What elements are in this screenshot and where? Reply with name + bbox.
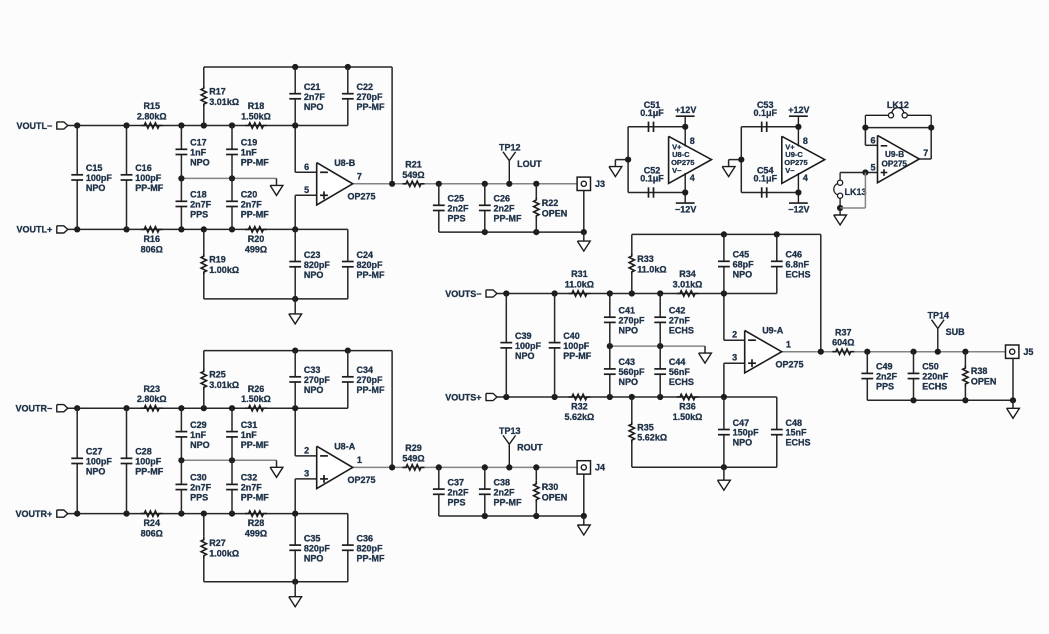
svg-text:220nF: 220nF (922, 372, 949, 382)
svg-text:100pF: 100pF (86, 173, 113, 183)
ground S mid (699, 346, 712, 363)
resistor R25 (201, 351, 239, 409)
ground R mid (270, 460, 283, 477)
svg-text:3.01kΩ: 3.01kΩ (673, 280, 703, 290)
svg-text:PP-MF: PP-MF (241, 440, 270, 450)
svg-text:2.80kΩ: 2.80kΩ (137, 112, 167, 122)
svg-text:1nF: 1nF (241, 148, 258, 158)
svg-text:2n2F: 2n2F (448, 487, 470, 497)
svg-text:5: 5 (870, 163, 875, 173)
svg-text:820pF: 820pF (304, 260, 331, 270)
capacitor C53 (753, 100, 777, 132)
svg-text:1: 1 (357, 455, 362, 465)
resistor R36 (673, 394, 703, 422)
svg-text:VOUTR+: VOUTR+ (16, 509, 53, 519)
svg-text:C26: C26 (494, 194, 511, 204)
svg-text:R21: R21 (405, 160, 422, 170)
svg-text:R38: R38 (971, 366, 988, 376)
wire S mid ground net (610, 345, 705, 347)
wire S output row (782, 351, 1006, 353)
svg-text:0.1μF: 0.1μF (640, 108, 664, 118)
capacitor C19 (226, 126, 269, 179)
svg-text:100pF: 100pF (515, 341, 542, 351)
svg-text:C45: C45 (733, 250, 750, 260)
svg-text:OPEN: OPEN (542, 209, 568, 219)
svg-text:C20: C20 (241, 190, 258, 200)
resistor R17 (201, 67, 239, 126)
svg-text:R24: R24 (143, 518, 160, 528)
svg-text:R25: R25 (209, 370, 226, 380)
svg-text:C47: C47 (733, 418, 750, 428)
svg-text:PP-MF: PP-MF (563, 351, 592, 361)
wire U8-C bottom net (628, 192, 685, 194)
svg-text:ECHS: ECHS (922, 382, 947, 392)
connector J5 (1006, 345, 1034, 358)
svg-text:PPS: PPS (190, 210, 208, 220)
svg-text:PP-MF: PP-MF (357, 102, 386, 112)
svg-text:R30: R30 (542, 482, 559, 492)
svg-text:C24: C24 (357, 250, 374, 260)
capacitor C33 (289, 351, 330, 409)
svg-text:R31: R31 (571, 269, 588, 279)
svg-text:270pF: 270pF (357, 92, 384, 102)
capacitor C20 (226, 178, 269, 229)
op-amp U8-A (304, 441, 375, 488)
svg-text:ECHS: ECHS (786, 270, 811, 280)
resistor R38 (963, 352, 997, 401)
ground U8-C (609, 160, 622, 177)
svg-text:NPO: NPO (619, 325, 639, 335)
resistor R24 (141, 511, 163, 539)
wire U9-B top net (865, 127, 931, 129)
svg-text:VOUTL+: VOUTL+ (17, 225, 53, 235)
svg-text:J4: J4 (595, 463, 605, 473)
svg-text:1.00kΩ: 1.00kΩ (209, 265, 239, 275)
svg-text:PP-MF: PP-MF (241, 158, 270, 168)
svg-text:820pF: 820pF (357, 543, 384, 553)
power +12V U8-C (675, 105, 696, 127)
svg-text:R18: R18 (248, 101, 265, 111)
svg-text:VOUTL−: VOUTL− (17, 121, 53, 131)
svg-text:C38: C38 (494, 477, 511, 487)
link LK12 (865, 100, 931, 128)
svg-text:8: 8 (690, 136, 695, 146)
connector VOUTR+ (16, 509, 68, 519)
resistor R22 (534, 184, 568, 232)
capacitor C49 (861, 352, 897, 401)
junctions L (74, 64, 587, 302)
svg-text:2n2F: 2n2F (876, 372, 898, 382)
svg-text:C44: C44 (669, 357, 686, 367)
svg-text:0.1μF: 0.1μF (753, 174, 777, 184)
svg-text:C23: C23 (304, 250, 321, 260)
svg-text:R20: R20 (248, 234, 265, 244)
svg-text:100pF: 100pF (135, 173, 162, 183)
capacitor C42 (654, 294, 694, 347)
svg-text:R26: R26 (248, 384, 265, 394)
svg-text:C25: C25 (448, 194, 465, 204)
op-amp U8-B (304, 158, 375, 205)
svg-text:1.50kΩ: 1.50kΩ (673, 412, 703, 422)
ground S bottom (718, 467, 731, 490)
capacitor C31 (226, 408, 269, 460)
svg-text:3.01kΩ: 3.01kΩ (209, 380, 239, 390)
svg-text:3: 3 (304, 468, 309, 478)
ground U9-B (834, 208, 847, 225)
resistor R21 (402, 160, 424, 187)
svg-text:C19: C19 (241, 138, 258, 148)
svg-text:U9-B: U9-B (885, 150, 904, 159)
svg-text:R32: R32 (571, 402, 588, 412)
svg-text:549Ω: 549Ω (402, 453, 424, 463)
svg-text:NPO: NPO (304, 553, 324, 563)
svg-text:C49: C49 (876, 362, 893, 372)
wire R bottom net (204, 581, 348, 583)
svg-text:68pF: 68pF (733, 260, 755, 270)
wire U8-C top net (628, 126, 685, 128)
connector VOUTS− (445, 289, 497, 299)
svg-text:LK12: LK12 (887, 100, 909, 110)
junctions R (74, 348, 587, 585)
svg-text:2n2F: 2n2F (448, 204, 470, 214)
power −12V U9-C (788, 193, 809, 215)
svg-text:PP-MF: PP-MF (357, 385, 386, 395)
svg-text:PP-MF: PP-MF (357, 270, 386, 280)
capacitor C36 (342, 514, 385, 582)
svg-text:11.0kΩ: 11.0kΩ (637, 265, 666, 275)
svg-text:PP-MF: PP-MF (494, 497, 523, 507)
capacitor C45 (718, 234, 754, 293)
capacitor C27 (71, 408, 112, 513)
svg-text:VOUTR−: VOUTR− (16, 404, 53, 414)
resistor R33 (629, 234, 666, 293)
svg-text:R16: R16 (143, 234, 160, 244)
wire S plus-input row (497, 396, 777, 398)
wire S output bottom net (867, 358, 1013, 400)
op-amp U9-A (732, 326, 803, 373)
svg-text:R23: R23 (143, 384, 160, 394)
svg-text:U8-B: U8-B (334, 158, 356, 168)
svg-text:V−: V− (785, 166, 795, 175)
svg-text:C50: C50 (922, 362, 939, 372)
capacitor C39 (500, 294, 541, 398)
resistor R32 (565, 394, 595, 422)
wire R top feedback net (204, 351, 392, 468)
svg-text:OP275: OP275 (882, 160, 908, 169)
svg-text:R35: R35 (637, 422, 654, 432)
capacitor C21 (289, 67, 325, 126)
svg-text:ROUT: ROUT (517, 443, 543, 453)
svg-text:499Ω: 499Ω (245, 244, 267, 254)
svg-text:5.62kΩ: 5.62kΩ (637, 433, 667, 443)
wire U9-B pin 6 stub (865, 128, 877, 146)
wire L minus-input row (68, 125, 348, 127)
svg-text:R19: R19 (209, 254, 226, 264)
capacitor C32 (226, 460, 269, 513)
capacitor C22 (342, 67, 385, 126)
capacitor C23 (289, 229, 330, 299)
svg-text:U8-A: U8-A (334, 441, 356, 451)
capacitor C41 (604, 294, 645, 347)
svg-text:LOUT: LOUT (517, 159, 542, 169)
svg-text:C21: C21 (304, 82, 321, 92)
ground L mid (270, 178, 283, 195)
wire L bottom net (204, 298, 348, 300)
svg-text:−12V: −12V (788, 205, 809, 215)
svg-text:NPO: NPO (304, 385, 324, 395)
ground under J3 (577, 232, 590, 251)
svg-text:C30: C30 (190, 473, 207, 483)
svg-text:SUB: SUB (946, 327, 966, 337)
svg-text:499Ω: 499Ω (245, 529, 267, 539)
svg-text:LK13: LK13 (845, 187, 867, 197)
svg-text:C35: C35 (304, 533, 321, 543)
svg-text:V−: V− (672, 166, 682, 175)
svg-text:2n2F: 2n2F (494, 487, 516, 497)
svg-text:NPO: NPO (86, 183, 106, 193)
svg-text:1nF: 1nF (241, 430, 258, 440)
svg-text:C33: C33 (304, 365, 321, 375)
svg-text:C41: C41 (619, 306, 636, 316)
svg-text:R27: R27 (209, 538, 226, 548)
svg-text:VOUTS+: VOUTS+ (445, 392, 481, 402)
svg-text:100pF: 100pF (563, 341, 590, 351)
capacitor C34 (342, 351, 385, 409)
resistor R28 (245, 511, 267, 539)
svg-text:56nF: 56nF (669, 367, 691, 377)
capacitor C29 (176, 408, 210, 460)
capacitor C51 (640, 100, 664, 132)
svg-text:820pF: 820pF (304, 543, 331, 553)
svg-text:C32: C32 (241, 473, 258, 483)
wire S bottom net (632, 466, 777, 468)
svg-text:C43: C43 (619, 357, 636, 367)
resistor R19 (201, 229, 239, 299)
resistor R20 (245, 227, 267, 255)
resistor R15 (137, 101, 167, 128)
svg-text:NPO: NPO (190, 158, 210, 168)
capacitor C44 (654, 346, 694, 397)
resistor R16 (141, 227, 163, 255)
svg-text:−12V: −12V (675, 205, 696, 215)
svg-text:1: 1 (786, 339, 791, 349)
svg-text:R29: R29 (405, 443, 422, 453)
svg-text:2: 2 (304, 445, 309, 455)
svg-text:150pF: 150pF (733, 428, 760, 438)
svg-text:PP-MF: PP-MF (241, 210, 270, 220)
connector VOUTL+ (17, 225, 68, 235)
svg-text:J3: J3 (595, 179, 605, 189)
wire U9-C pin 4 (798, 173, 808, 193)
wire R non-inverting stub (295, 479, 317, 514)
connector J4 (577, 461, 605, 474)
wire U9-C left column (729, 127, 742, 193)
svg-text:PP-MF: PP-MF (241, 493, 270, 503)
capacitor C15 (71, 126, 112, 230)
svg-text:NPO: NPO (86, 467, 106, 477)
op-amp U9-B (870, 135, 928, 182)
svg-text:OP275: OP275 (776, 360, 804, 370)
svg-text:R36: R36 (679, 402, 696, 412)
svg-text:NPO: NPO (190, 440, 210, 450)
svg-text:2: 2 (732, 330, 737, 340)
capacitor C40 (549, 294, 592, 398)
svg-text:6.8nF: 6.8nF (786, 260, 810, 270)
svg-text:7: 7 (357, 172, 362, 182)
svg-text:OPEN: OPEN (971, 377, 997, 387)
capacitor C43 (604, 346, 645, 397)
svg-text:ECHS: ECHS (669, 377, 694, 387)
wire U8-C pin 4 (685, 173, 695, 193)
wire S non-inverting stub (724, 363, 745, 397)
wire R mid ground net (181, 459, 276, 461)
svg-text:2n7F: 2n7F (190, 483, 212, 493)
svg-text:C22: C22 (357, 82, 374, 92)
svg-text:ECHS: ECHS (786, 438, 811, 448)
svg-text:C42: C42 (669, 306, 686, 316)
capacitor C18 (176, 178, 212, 229)
power +12V U9-C (788, 105, 809, 127)
svg-text:NPO: NPO (733, 270, 753, 280)
svg-text:PP-MF: PP-MF (135, 467, 164, 477)
capacitor C46 (771, 234, 811, 293)
wire L output row (353, 183, 577, 185)
resistor R29 (402, 443, 424, 470)
svg-text:OPEN: OPEN (542, 492, 568, 502)
capacitor C26 (479, 184, 522, 232)
svg-text:3.01kΩ: 3.01kΩ (209, 97, 239, 107)
capacitor C17 (176, 126, 210, 179)
svg-text:C39: C39 (515, 331, 532, 341)
svg-text:C40: C40 (563, 331, 580, 341)
svg-text:2n7F: 2n7F (304, 92, 326, 102)
svg-text:C17: C17 (190, 138, 207, 148)
svg-text:C37: C37 (448, 477, 465, 487)
link LK13 (834, 173, 867, 209)
svg-text:TP13: TP13 (499, 426, 521, 436)
svg-text:15nF: 15nF (786, 428, 808, 438)
svg-text:270pF: 270pF (357, 375, 384, 385)
capacitor C37 (433, 467, 469, 516)
svg-text:4: 4 (803, 173, 808, 183)
wire U9-C bottom net (741, 192, 798, 194)
resistor R34 (673, 269, 703, 296)
svg-text:NPO: NPO (733, 438, 753, 448)
svg-text:PP-MF: PP-MF (357, 553, 386, 563)
svg-text:R22: R22 (542, 198, 559, 208)
wire U9-C top net (741, 126, 798, 128)
wire U8-C pin 8 (685, 127, 695, 147)
svg-text:C36: C36 (357, 533, 374, 543)
capacitor C16 (121, 126, 164, 230)
svg-text:8: 8 (803, 136, 808, 146)
junctions U9-B (837, 125, 934, 212)
svg-text:1nF: 1nF (190, 430, 207, 440)
capacitor C48 (771, 397, 811, 467)
svg-text:J5: J5 (1023, 347, 1033, 357)
ground L bottom (289, 299, 302, 324)
resistor R30 (534, 467, 568, 516)
svg-text:C29: C29 (190, 420, 207, 430)
capacitor C47 (718, 397, 759, 467)
svg-text:NPO: NPO (619, 377, 639, 387)
wire R minus-input row (68, 407, 348, 409)
svg-text:R28: R28 (248, 518, 265, 528)
wire L mid ground net (181, 177, 276, 179)
svg-text:C16: C16 (135, 163, 152, 173)
svg-text:TP14: TP14 (928, 311, 950, 321)
wire R inverting stub (295, 408, 317, 456)
svg-text:PPS: PPS (448, 214, 466, 224)
svg-text:1.50kΩ: 1.50kΩ (241, 394, 271, 404)
wire L plus-input row (68, 228, 348, 230)
svg-text:6: 6 (870, 135, 875, 145)
svg-text:1.50kΩ: 1.50kΩ (241, 112, 271, 122)
svg-text:C15: C15 (86, 163, 103, 173)
svg-text:C27: C27 (86, 447, 103, 457)
junctions U9-C (738, 124, 801, 196)
wire S minus-input row (497, 293, 777, 295)
svg-text:C28: C28 (135, 447, 152, 457)
junctions S (503, 231, 1016, 470)
wire S inverting stub (724, 294, 745, 341)
svg-text:806Ω: 806Ω (141, 244, 163, 254)
svg-text:NPO: NPO (515, 351, 535, 361)
capacitor C38 (479, 467, 522, 516)
resistor R27 (201, 514, 239, 582)
svg-text:PPS: PPS (876, 382, 894, 392)
wire U9-B pin 7 stub (919, 128, 931, 159)
svg-text:PP-MF: PP-MF (494, 214, 523, 224)
svg-text:0.1μF: 0.1μF (640, 174, 664, 184)
connector VOUTS+ (445, 392, 497, 402)
ground under J4 (577, 516, 590, 535)
svg-text:U9-A: U9-A (762, 326, 784, 336)
wire L inverting stub (295, 126, 317, 173)
wire R output bottom net (439, 474, 584, 516)
power −12V U8-C (675, 193, 696, 215)
test point TP14 (928, 311, 966, 352)
svg-text:7: 7 (923, 148, 928, 158)
capacitor C54 (753, 166, 777, 198)
wire U8-C left column (615, 127, 628, 193)
connector VOUTR− (16, 404, 68, 414)
svg-text:R37: R37 (835, 327, 852, 337)
svg-text:NPO: NPO (304, 102, 324, 112)
capacitor C52 (640, 166, 664, 198)
svg-text:C48: C48 (786, 418, 803, 428)
svg-text:PPS: PPS (448, 497, 466, 507)
svg-text:11.0kΩ: 11.0kΩ (565, 280, 594, 290)
svg-text:R34: R34 (679, 269, 696, 279)
resistor R35 (629, 397, 667, 467)
svg-text:604Ω: 604Ω (832, 338, 854, 348)
svg-text:C46: C46 (786, 250, 803, 260)
svg-text:5: 5 (304, 185, 309, 195)
svg-text:R15: R15 (143, 101, 160, 111)
svg-text:+12V: +12V (788, 105, 809, 115)
resistor R18 (241, 101, 271, 128)
ground under J5 (1007, 400, 1020, 418)
wire LK13 bypass (840, 173, 865, 209)
svg-text:TP12: TP12 (499, 143, 521, 153)
capacitor C30 (176, 460, 212, 513)
svg-text:2n7F: 2n7F (190, 200, 212, 210)
svg-text:PP-MF: PP-MF (135, 183, 164, 193)
ground U9-C (722, 160, 735, 177)
svg-text:820pF: 820pF (357, 260, 384, 270)
svg-text:NPO: NPO (304, 270, 324, 280)
